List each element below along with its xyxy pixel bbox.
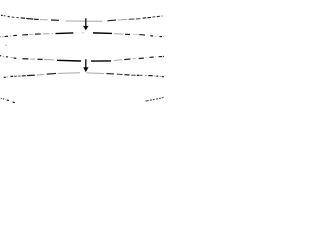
downward force arrow 1 (upper pair) — [83, 18, 88, 30]
dashed streamline curve 2 (upper pair, bottom) — [0, 33, 164, 37]
dashed streamline curve 4 (lower pair, bottom) — [1, 73, 164, 78]
dashed streamline curve 3 (lower pair, top) — [0, 56, 164, 61]
dashed streamline curve 5 (bottom, clipped at corners) — [1, 97, 164, 103]
downward force arrow 2 (lower pair) — [83, 59, 88, 72]
dashed streamline curve 1 (upper pair, top) — [1, 15, 163, 21]
stray speck — [5, 45, 6, 46]
